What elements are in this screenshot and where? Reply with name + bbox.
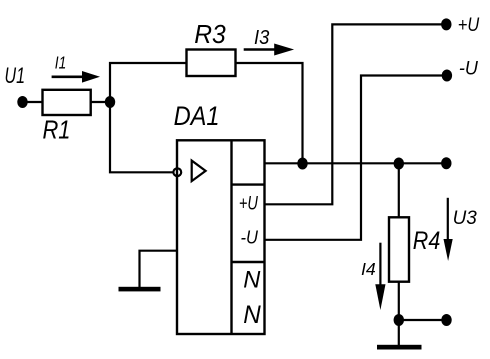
junction output-feedback [297,158,307,170]
terminal -U [442,70,452,82]
arrow I4 [375,243,385,310]
wire node A up to R3 [110,63,187,103]
wire output [265,162,447,164]
svg-text:-U: -U [241,228,259,248]
svg-text:R3: R3 [194,19,226,49]
junction output-R4 [394,158,404,170]
wire bottom node to terminal [399,319,447,321]
wire R4 to bottom node [398,282,400,320]
wire bottom node to ground [398,320,400,345]
svg-text:+U: +U [239,193,258,214]
inverting input circle [173,168,181,176]
resistor R3 [187,50,236,77]
svg-text:+U: +U [458,15,480,36]
arrow U3 [444,198,453,261]
svg-text:-U: -U [459,58,478,79]
op-amp compartment divider 2 [232,261,265,263]
ground right [377,345,422,350]
terminal U1 input [17,96,27,108]
wire output node to R4 [398,163,400,217]
wire ground to non-inverting input [140,251,178,287]
arrow I1 [52,71,100,83]
svg-text:R1: R1 [43,117,71,145]
terminal output [441,157,451,169]
svg-text:I4: I4 [361,259,376,279]
op-amp DA1 column divider [230,140,232,334]
svg-text:I1: I1 [55,53,67,73]
ground left [119,287,161,292]
svg-text:I3: I3 [254,27,269,49]
svg-text:N: N [243,267,261,294]
wire -U supply [265,76,447,240]
terminal +U [441,18,451,30]
svg-text:N: N [243,301,261,329]
resistor R4 [389,217,409,281]
svg-text:U1: U1 [5,63,26,88]
terminal bottom [441,314,451,326]
wire node A down to inverting input [110,101,173,172]
junction bottom node [394,314,404,326]
op-amp DA1 body [177,140,265,334]
op-amp compartment divider 1 [232,183,265,185]
wire R1 to node A [91,101,110,103]
op-amp triangle symbol [192,161,206,182]
resistor R1 [43,90,91,115]
svg-text:U3: U3 [453,207,477,229]
wire R3 to output node [236,63,303,163]
svg-text:R4: R4 [413,227,441,255]
node A junction [105,96,115,108]
wire +U supply [265,24,447,204]
arrow I3 [244,44,294,56]
wire input to R1 [23,101,43,103]
svg-text:DA1: DA1 [174,101,220,131]
